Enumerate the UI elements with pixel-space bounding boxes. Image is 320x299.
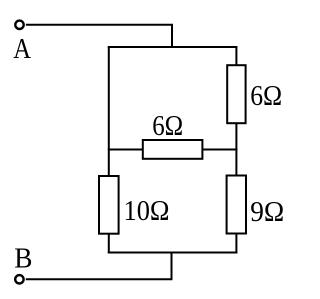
svg-text:6Ω: 6Ω — [152, 110, 183, 142]
svg-text:A: A — [13, 33, 31, 65]
wire right vertical upper — [235, 46, 237, 66]
wire A to top rail — [26, 25, 172, 47]
svg-text:9Ω: 9Ω — [250, 196, 284, 228]
svg-text:B: B — [14, 243, 32, 275]
wire middle rail right — [202, 149, 237, 151]
resistor R2 6ohm (middle horizontal) — [143, 140, 203, 159]
wire B to bottom rail — [26, 253, 172, 280]
wire middle rail left — [108, 149, 143, 151]
wire left vertical — [108, 46, 110, 176]
resistor R3 10ohm (bottom left) — [99, 176, 119, 234]
resistor R1 6ohm (top right) — [227, 65, 245, 123]
wire top rail — [108, 46, 238, 48]
wire below 10ohm — [108, 233, 110, 254]
resistor R4 9ohm (bottom right) — [227, 176, 246, 234]
terminal B — [15, 275, 23, 283]
wire below 9ohm — [235, 233, 237, 254]
svg-text:6Ω: 6Ω — [250, 80, 282, 112]
wire bottom rail — [108, 252, 238, 254]
svg-text:10Ω: 10Ω — [124, 195, 170, 227]
terminal A — [15, 21, 23, 29]
wire right vertical middle — [235, 123, 237, 176]
